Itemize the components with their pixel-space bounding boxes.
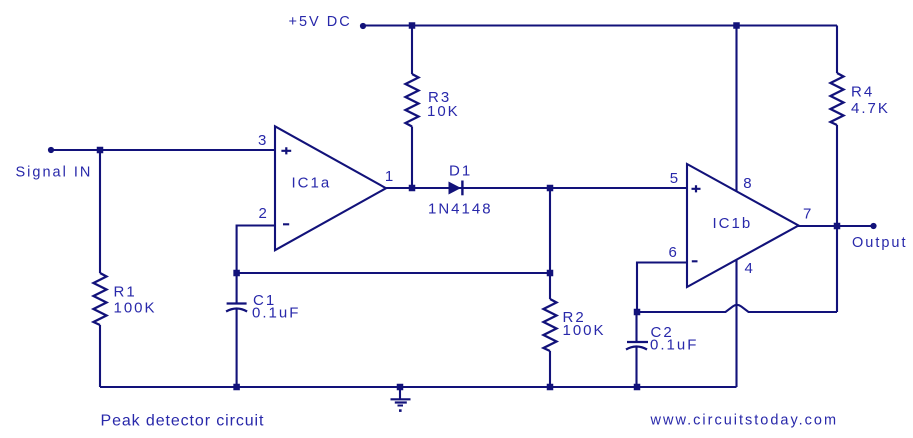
- svg-text:0.1uF: 0.1uF: [252, 305, 300, 322]
- svg-text:D1: D1: [449, 163, 472, 180]
- svg-text:8: 8: [743, 175, 753, 192]
- svg-text:R4: R4: [851, 84, 874, 101]
- svg-text:7: 7: [803, 206, 813, 223]
- svg-text:1: 1: [385, 168, 395, 185]
- svg-text:R1: R1: [114, 284, 137, 301]
- svg-text:6: 6: [669, 244, 679, 261]
- svg-text:IC1b: IC1b: [713, 215, 753, 232]
- svg-text:Signal IN: Signal IN: [16, 165, 93, 181]
- svg-text:4: 4: [745, 260, 755, 277]
- svg-text:4.7K: 4.7K: [851, 100, 890, 117]
- svg-text:0.1uF: 0.1uF: [650, 337, 698, 354]
- svg-text:2: 2: [259, 205, 269, 222]
- svg-text:1N4148: 1N4148: [428, 200, 493, 217]
- svg-text:10K: 10K: [427, 103, 460, 120]
- svg-text:Output: Output: [852, 235, 908, 251]
- svg-text:www.circuitstoday.com: www.circuitstoday.com: [650, 413, 839, 429]
- svg-text:100K: 100K: [114, 299, 157, 316]
- svg-text:5: 5: [670, 170, 680, 187]
- svg-text:Peak detector circuit: Peak detector circuit: [101, 413, 265, 430]
- svg-text:+5V DC: +5V DC: [289, 14, 352, 30]
- svg-text:100K: 100K: [563, 322, 606, 339]
- svg-text:IC1a: IC1a: [292, 175, 332, 192]
- svg-text:3: 3: [258, 132, 268, 149]
